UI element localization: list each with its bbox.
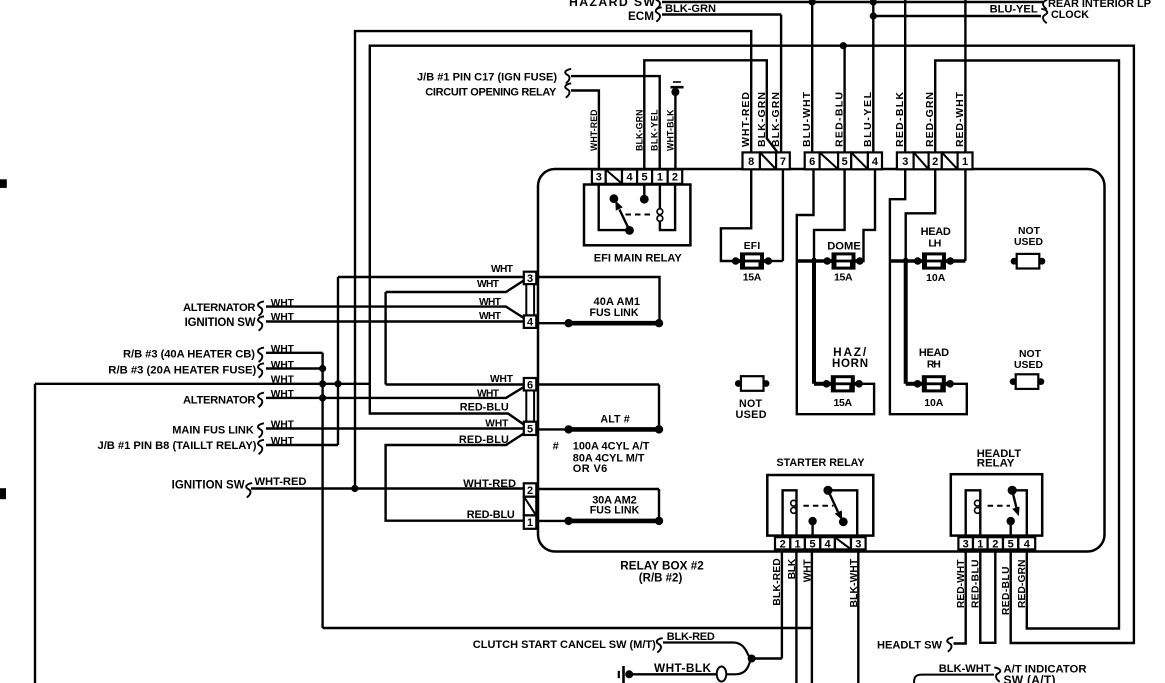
svg-text:WHT-RED: WHT-RED [740,92,752,147]
svg-text:WHT: WHT [271,344,295,355]
svg-text:RED-BLU: RED-BLU [1001,567,1012,616]
svg-text:WHT: WHT [479,297,502,308]
svg-text:1: 1 [527,517,533,529]
svg-text:ALTERNATOR: ALTERNATOR [183,394,256,406]
svg-text:4: 4 [527,317,534,329]
svg-text:DOME: DOME [827,240,861,252]
svg-text:(R/B #2): (R/B #2) [639,572,683,584]
svg-text:BLU-WHT: BLU-WHT [801,91,813,147]
svg-text:CLUTCH START CANCEL SW (M/T): CLUTCH START CANCEL SW (M/T) [473,639,656,651]
svg-text:RED-WHT: RED-WHT [954,91,966,147]
svg-text:WHT: WHT [271,298,295,309]
svg-text:RED-BLU: RED-BLU [467,509,515,521]
svg-text:USED: USED [1014,237,1043,248]
svg-text:RED-GRN: RED-GRN [924,92,936,147]
svg-text:8: 8 [748,156,754,168]
svg-text:HEAD: HEAD [919,347,949,359]
svg-text:4: 4 [1024,538,1031,550]
svg-text:6: 6 [809,156,815,168]
svg-text:3: 3 [963,538,969,550]
svg-text:5: 5 [1008,538,1014,550]
svg-text:WHT-BLK: WHT-BLK [665,109,675,151]
svg-text:ECM: ECM [628,10,654,23]
svg-text:WHT-RED: WHT-RED [463,478,516,490]
svg-text:3: 3 [855,538,861,550]
svg-text:BLK-GRN: BLK-GRN [770,92,782,147]
svg-text:RED-BLU: RED-BLU [459,434,509,446]
svg-text:7: 7 [780,156,786,168]
svg-text:CIRCUIT OPENING RELAY: CIRCUIT OPENING RELAY [425,87,557,99]
svg-text:ALT #: ALT # [600,414,629,426]
svg-text:1: 1 [795,538,801,550]
svg-text:WHT: WHT [491,264,514,275]
svg-text:3: 3 [527,273,533,285]
svg-text:MAIN FUS LINK: MAIN FUS LINK [172,425,254,437]
svg-text:WHT: WHT [271,360,295,371]
svg-text:15A: 15A [743,272,762,284]
svg-text:4: 4 [626,172,633,184]
svg-text:5: 5 [642,172,648,184]
svg-text:HEADLT SW: HEADLT SW [877,639,943,651]
svg-text:SW (A/T): SW (A/T) [1004,673,1056,683]
svg-text:BLK-RED: BLK-RED [772,558,783,605]
svg-text:STARTER RELAY: STARTER RELAY [777,457,865,469]
svg-text:HORN: HORN [832,358,868,370]
svg-text:WHT: WHT [271,436,295,447]
svg-text:OR V6: OR V6 [573,463,608,475]
svg-text:10A: 10A [924,397,944,409]
svg-text:USED: USED [1014,360,1043,371]
svg-text:100A 4CYL A/T: 100A 4CYL A/T [573,440,650,452]
svg-text:RED-BLU: RED-BLU [971,560,982,608]
svg-text:J/B #1 PIN B8 (TAILLT RELAY): J/B #1 PIN B8 (TAILLT RELAY) [98,440,257,452]
svg-text:CLOCK: CLOCK [1051,9,1089,21]
svg-text:EFI MAIN RELAY: EFI MAIN RELAY [594,253,683,265]
svg-text:WHT: WHT [802,559,813,583]
svg-text:WHT: WHT [271,389,295,400]
svg-text:10A: 10A [926,272,946,284]
svg-text:5: 5 [842,156,848,168]
svg-text:WHT: WHT [271,312,295,323]
svg-text:NOT: NOT [1018,226,1041,237]
svg-text:BLK-WHT: BLK-WHT [939,663,991,675]
svg-text:WHT: WHT [271,419,295,430]
svg-text:RED-WHT: RED-WHT [956,559,967,608]
svg-text:NOT: NOT [1019,349,1042,360]
svg-text:BLK-GRN: BLK-GRN [634,110,644,152]
svg-text:IGNITION SW: IGNITION SW [172,479,245,491]
svg-text:LH: LH [928,238,941,250]
svg-text:1: 1 [962,156,968,168]
svg-text:FUS LINK: FUS LINK [590,307,639,319]
svg-text:BLK-RED: BLK-RED [667,631,715,643]
svg-text:RED-BLU: RED-BLU [834,92,846,147]
svg-text:HAZARD SW: HAZARD SW [569,0,655,9]
svg-text:3: 3 [596,172,602,184]
svg-text:ALTERNATOR: ALTERNATOR [183,302,256,314]
svg-text:3: 3 [902,156,908,168]
svg-text:RED-GRN: RED-GRN [1017,560,1028,609]
svg-text:WHT: WHT [490,374,514,385]
svg-text:2: 2 [527,485,533,497]
svg-text:WHT: WHT [271,374,295,385]
svg-text:1: 1 [657,172,663,184]
svg-text:FUS LINK: FUS LINK [590,505,640,517]
svg-text:HEAD: HEAD [921,226,951,238]
svg-text:BLK-WHT: BLK-WHT [849,558,860,607]
svg-text:RELAY: RELAY [977,458,1015,470]
svg-text:USED: USED [736,409,767,421]
svg-text:BLK-GRN: BLK-GRN [665,3,716,15]
svg-text:#: # [553,441,559,453]
svg-text:RH: RH [927,358,941,370]
svg-text:BLK-YEL: BLK-YEL [650,109,660,151]
svg-text:5: 5 [527,423,533,435]
svg-text:4: 4 [872,156,879,168]
svg-text:RED-BLK: RED-BLK [894,92,906,147]
svg-text:BLK-GRN: BLK-GRN [756,92,768,147]
svg-text:2: 2 [672,172,678,184]
svg-text:4: 4 [825,538,832,550]
svg-text:R/B #3 (40A HEATER CB): R/B #3 (40A HEATER CB) [123,349,255,361]
svg-text:WHT-RED: WHT-RED [255,476,307,488]
svg-text:WHT: WHT [477,389,500,400]
svg-text:EFI: EFI [744,241,761,252]
svg-text:RED-BLU: RED-BLU [460,402,509,414]
svg-text:BLU-YEL: BLU-YEL [990,4,1038,16]
svg-text:WHT: WHT [485,418,509,429]
svg-text:WHT-BLK: WHT-BLK [654,661,711,675]
svg-text:2: 2 [992,538,998,550]
svg-text:IGNITION SW: IGNITION SW [185,317,256,329]
svg-text:WHT: WHT [479,311,502,322]
svg-text:15A: 15A [834,271,853,283]
svg-text:RELAY BOX #2: RELAY BOX #2 [620,560,704,573]
svg-text:WHT: WHT [477,279,500,290]
svg-text:WHT-RED: WHT-RED [589,110,599,152]
svg-text:2: 2 [780,538,786,550]
svg-text:5: 5 [810,538,816,550]
svg-text:J/B #1 PIN C17 (IGN FUSE): J/B #1 PIN C17 (IGN FUSE) [417,72,557,84]
svg-text:6: 6 [527,379,533,391]
svg-text:2: 2 [932,156,938,168]
svg-text:15A: 15A [834,397,853,409]
svg-text:R/B #3 (20A HEATER FUSE): R/B #3 (20A HEATER FUSE) [108,364,256,376]
svg-text:1: 1 [977,538,983,550]
svg-text:BLK: BLK [787,558,798,579]
